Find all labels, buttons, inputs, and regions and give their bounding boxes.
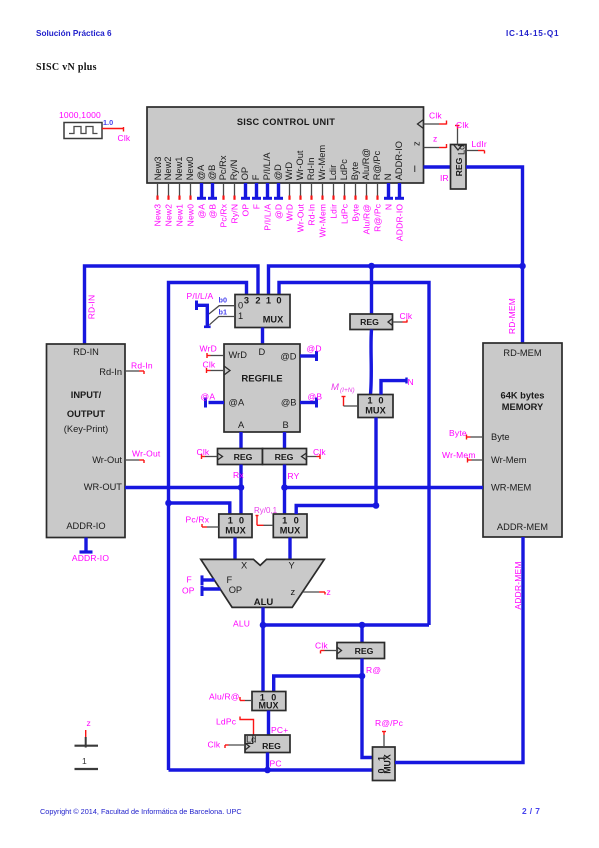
svg-text:WR-MEM: WR-MEM: [491, 483, 531, 493]
svg-text:WrD: WrD: [284, 162, 294, 181]
CU pin @B: [207, 165, 217, 219]
node Clk: [118, 133, 131, 143]
CU pin LdPc: [339, 159, 349, 224]
svg-text:1: 1: [266, 296, 271, 306]
CU pin @A: [196, 164, 206, 219]
svg-text:64K bytes: 64K bytes: [501, 391, 545, 401]
register R@ REG: [337, 643, 385, 659]
svg-text:F: F: [251, 174, 261, 180]
svg-text:Rx: Rx: [233, 470, 244, 480]
junction Ry / WR-MEM: [281, 484, 288, 491]
svg-text:ADDR-IO: ADDR-IO: [66, 521, 105, 531]
wire MUX1 output to REGFILE D: [261, 328, 264, 345]
svg-text:Clk: Clk: [400, 311, 413, 321]
svg-text:Pc/Rx: Pc/Rx: [218, 155, 228, 180]
svg-text:RD-MEM: RD-MEM: [503, 348, 541, 358]
svg-text:REGFILE: REGFILE: [241, 374, 282, 385]
svg-text:LdPc: LdPc: [339, 203, 349, 224]
control unit I input pin label: [414, 164, 417, 174]
svg-text:R@/Pc: R@/Pc: [372, 203, 382, 232]
mux M(I+N): [358, 395, 393, 418]
memory Byte input stub: [449, 428, 483, 440]
svg-text:PC: PC: [270, 759, 282, 769]
svg-text:Y: Y: [289, 561, 295, 571]
clock generator box: [64, 123, 102, 139]
svg-text:Wr-Mem: Wr-Mem: [442, 450, 476, 460]
svg-text:RD-IN: RD-IN: [87, 295, 97, 320]
svg-text:F: F: [227, 575, 233, 585]
CU pin Ry/N: [229, 160, 239, 224]
svg-text:@D: @D: [273, 204, 283, 219]
svg-text:Byte: Byte: [350, 204, 360, 222]
wire ALU output down: [261, 607, 264, 692]
register IR: [451, 145, 467, 190]
svg-text:New0: New0: [185, 157, 195, 181]
node ALU label: [233, 619, 250, 629]
header title left: [36, 29, 112, 38]
node PC+ label: [271, 725, 288, 735]
svg-text:B: B: [283, 420, 289, 430]
svg-text:Clk: Clk: [203, 360, 216, 370]
svg-text:@A: @A: [229, 398, 245, 408]
CU pin R@/Pc: [372, 150, 382, 231]
svg-text:MUX: MUX: [225, 526, 246, 536]
wire Clk from clock generator: [102, 127, 124, 132]
CU pin WrD: [284, 162, 294, 222]
svg-text:New2: New2: [163, 204, 173, 227]
wire MUX ADDR output to ADDR-MEM: [395, 537, 523, 763]
svg-text:Wr-Mem: Wr-Mem: [317, 204, 327, 238]
svg-text:Clk: Clk: [118, 133, 131, 143]
footer copyright: [40, 807, 242, 816]
svg-text:z: z: [412, 141, 422, 146]
svg-text:z: z: [433, 134, 437, 144]
CU pin New2: [163, 157, 173, 227]
control unit z input: [412, 141, 447, 148]
wire MUX Y output to ALU Y: [288, 538, 291, 561]
svg-text:MEMORY: MEMORY: [502, 402, 544, 412]
svg-text:@D: @D: [307, 344, 322, 354]
svg-text:P/I/L/A: P/I/L/A: [262, 152, 272, 181]
wire PC tap to MUX X pin1: [169, 503, 230, 515]
wire WR-MEM bus (Ry to memory): [285, 486, 484, 489]
svg-text:New2: New2: [163, 157, 173, 181]
io Wr-Out input stub: [125, 449, 161, 464]
label b1: [219, 308, 228, 317]
svg-text:@B: @B: [207, 204, 217, 219]
svg-text:(Key-Print): (Key-Print): [64, 424, 108, 434]
svg-text:0: 0: [294, 515, 299, 525]
CU pin ADDR-IO: [394, 141, 404, 241]
control unit U1 box: [147, 107, 424, 183]
node Rx label: [233, 470, 244, 480]
wire RD-MEM net (memory column to MUX pin1 and MDR reg): [269, 266, 523, 314]
ALU z output: [303, 587, 331, 597]
wire I bus control unit to IR: [424, 165, 451, 168]
svg-text:N: N: [408, 377, 414, 387]
svg-text:New0: New0: [185, 204, 195, 227]
P/I/L/A bus split annotation: [197, 301, 211, 327]
wire ALU output bus right: [263, 623, 429, 626]
svg-text:Solución Práctica 6: Solución Práctica 6: [36, 29, 112, 38]
svg-text:0: 0: [238, 300, 243, 310]
wire MDR REG output to MUX M: [371, 330, 372, 395]
register MDR REG (memory data): [350, 314, 393, 330]
junction RD-MEM at memory column: [519, 263, 526, 270]
MUX Y select input Ry/0,1: [254, 506, 278, 525]
svg-text:@B: @B: [308, 392, 323, 402]
MUX1 select stub b0: [209, 306, 235, 314]
svg-text:R@/Pc: R@/Pc: [375, 718, 404, 728]
svg-text:Wr-Out: Wr-Out: [295, 150, 305, 180]
svg-text:WR-OUT: WR-OUT: [84, 482, 123, 492]
svg-text:REG: REG: [275, 452, 294, 462]
svg-text:@A: @A: [201, 392, 216, 402]
svg-text:Ldir: Ldir: [328, 165, 338, 181]
svg-text:PC+: PC+: [271, 725, 288, 735]
register Ry REG: [263, 449, 307, 465]
wire REGFILE A to REG Rx: [239, 432, 242, 449]
junction ALU output: [260, 622, 267, 629]
svg-text:@A: @A: [196, 164, 206, 180]
wire I bus IR to RD-MEM column: [466, 167, 523, 343]
svg-text:WrD: WrD: [229, 350, 248, 360]
svg-text:@A: @A: [196, 204, 206, 219]
svg-text:Wr-Mem: Wr-Mem: [317, 145, 327, 181]
alu ALU trapezoid: [201, 559, 324, 608]
svg-text:A: A: [238, 420, 245, 430]
svg-text:ALU: ALU: [233, 619, 250, 629]
node ADDR-MEM vertical label: [513, 561, 523, 609]
wire R@ to MUX PC pin0: [274, 676, 362, 692]
svg-text:MUX: MUX: [263, 315, 284, 325]
svg-text:1: 1: [238, 311, 243, 321]
svg-text:I: I: [414, 164, 417, 174]
svg-text:1: 1: [282, 515, 287, 525]
svg-text:Rd-In: Rd-In: [306, 204, 316, 226]
CU pin Byte: [350, 162, 360, 222]
wire Ry output: [283, 465, 286, 515]
annotation z tied to 1: [75, 718, 99, 769]
CU pin New1: [174, 157, 184, 227]
svg-text:Rd-In: Rd-In: [131, 361, 153, 371]
svg-text:ADDR-MEM: ADDR-MEM: [513, 561, 523, 609]
control unit Clk input chevron: [418, 120, 447, 129]
wire MUX PC output to PC REG: [267, 711, 270, 736]
svg-text:1.0: 1.0: [103, 118, 113, 127]
svg-text:LdIr: LdIr: [472, 139, 487, 149]
svg-text:IR: IR: [440, 173, 449, 183]
svg-text:Clk: Clk: [429, 111, 442, 121]
svg-text:Clk: Clk: [456, 120, 469, 130]
PC REG Clk input: [208, 740, 246, 750]
svg-text:OP: OP: [240, 204, 250, 217]
svg-text:Pc/Rx: Pc/Rx: [218, 203, 228, 227]
CU pin Rd-In: [306, 158, 316, 226]
node Clk at control unit: [429, 111, 442, 121]
svg-text:OUTPUT: OUTPUT: [67, 409, 106, 419]
svg-text:Clk: Clk: [208, 740, 221, 750]
wire WR-OUT bus (Rx to IO): [125, 486, 241, 489]
MDR REG Clk input: [393, 311, 413, 323]
svg-text:0: 0: [239, 515, 244, 525]
mux MUX1 (P/I/L/A source select): [235, 295, 290, 328]
svg-text:SISC vN plus: SISC vN plus: [36, 62, 97, 73]
node PC label: [270, 759, 282, 769]
svg-text:1000,1000: 1000,1000: [59, 110, 101, 120]
svg-text:WrD: WrD: [200, 344, 217, 354]
CU pin Wr-Out: [295, 150, 305, 232]
svg-text:REG: REG: [234, 452, 253, 462]
svg-text:ADDR-IO: ADDR-IO: [72, 553, 109, 563]
svg-text:z: z: [327, 587, 331, 597]
wire RD-IN net (IO box to MUX pin2): [85, 266, 259, 344]
REGFILE WrD input: [200, 344, 225, 359]
wire PC net top segment (left loop to MUX pin3): [169, 283, 247, 771]
svg-text:Wr-Out: Wr-Out: [92, 455, 122, 465]
ALU F input stub: [187, 575, 215, 586]
wire R@ down to MUX ADDR pin1: [362, 676, 373, 758]
svg-text:RD-IN: RD-IN: [73, 347, 99, 357]
mux X (Pc/Rx): [219, 514, 252, 538]
REGFILE Clk input: [203, 360, 231, 376]
wire REGFILE B to REG Ry: [283, 432, 286, 449]
svg-text:OP: OP: [229, 585, 242, 595]
svg-text:ADDR-IO: ADDR-IO: [394, 204, 404, 241]
svg-text:R@: R@: [366, 665, 381, 675]
svg-text:@B: @B: [207, 165, 217, 181]
svg-text:Clk: Clk: [197, 447, 210, 457]
svg-text:REG: REG: [262, 741, 281, 751]
svg-text:LdPc: LdPc: [339, 159, 349, 181]
node P/I/L/A label: [187, 291, 214, 301]
svg-text:P/I/L/A: P/I/L/A: [262, 204, 272, 231]
mux PC source (Alu/R@): [252, 692, 286, 711]
junction PC: [264, 767, 271, 774]
CU pin @D: [273, 164, 283, 219]
PC REG LdPc input: [216, 717, 254, 735]
clock generator output label 1.0: [103, 118, 113, 127]
svg-text:Byte: Byte: [449, 428, 467, 438]
wire Rx output: [239, 465, 242, 515]
svg-text:Alu/R@: Alu/R@: [361, 148, 371, 180]
svg-text:MUX: MUX: [365, 406, 386, 416]
CU pin Alu/R@: [361, 148, 371, 234]
CU pin New0: [185, 157, 195, 227]
svg-text:ADDR-IO: ADDR-IO: [394, 141, 404, 180]
svg-text:b1: b1: [219, 308, 228, 317]
CU pin Wr-Mem: [317, 145, 327, 238]
svg-text:z: z: [291, 587, 296, 597]
svg-text:2: 2: [255, 296, 260, 306]
svg-text:N: N: [383, 204, 393, 210]
svg-text:M: M: [331, 382, 339, 393]
svg-text:Ld: Ld: [457, 145, 467, 155]
svg-text:Alu/R@: Alu/R@: [209, 692, 240, 702]
CU pin F: [251, 174, 261, 209]
svg-text:OP: OP: [182, 586, 195, 596]
svg-text:Ld: Ld: [246, 735, 256, 745]
svg-text:RD-MEM: RD-MEM: [507, 298, 517, 334]
CU pin P/I/L/A: [262, 152, 272, 231]
junction R@: [359, 673, 366, 680]
wire MUX M feed into MUX Y pin0: [296, 506, 376, 515]
svg-text:REG: REG: [360, 317, 379, 327]
svg-text:F: F: [187, 575, 192, 585]
svg-text:@B: @B: [281, 398, 297, 408]
wire MUX X output to ALU X: [233, 538, 236, 561]
Rx REG Clk input: [197, 447, 218, 459]
svg-text:D: D: [259, 347, 266, 357]
node ADDR-IO label: [72, 553, 109, 563]
REGFILE @A port stub: [201, 392, 225, 408]
node RY label: [288, 471, 300, 481]
svg-text:LdPc: LdPc: [216, 717, 237, 727]
R@ REG Clk input: [315, 641, 337, 654]
svg-text:IC-14-15-Q1: IC-14-15-Q1: [506, 29, 559, 38]
svg-text:New3: New3: [153, 157, 163, 181]
svg-text:OP: OP: [240, 167, 250, 180]
IR label: [440, 173, 449, 183]
svg-text:Ry/0,1: Ry/0,1: [254, 506, 278, 515]
svg-text:2 / 7: 2 / 7: [522, 806, 540, 816]
CU pin OP: [240, 167, 250, 217]
node z: [433, 134, 437, 144]
label b0: [219, 296, 228, 305]
wire PC bottom bus: [169, 768, 373, 771]
node RD-IN label: [87, 295, 97, 320]
svg-text:MUX: MUX: [280, 526, 301, 536]
svg-text:MUX: MUX: [259, 701, 279, 711]
junction PC tap: [165, 500, 172, 507]
CU pin Pc/Rx: [218, 155, 228, 227]
io box INPUT/OUTPUT: [47, 344, 126, 538]
register Rx REG: [218, 449, 263, 465]
io ADDR-IO terminator: [80, 538, 93, 553]
CU pin New3: [152, 157, 163, 227]
svg-text:Byte: Byte: [491, 432, 510, 442]
svg-text:Copyright © 2014, Facultad de: Copyright © 2014, Facultad de Informátic…: [40, 807, 242, 816]
svg-text:INPUT/: INPUT/: [71, 390, 102, 400]
REGFILE @D port stub: [300, 344, 322, 362]
svg-text:Ry/N: Ry/N: [229, 204, 239, 224]
junction MUX M output / Y-mux feed: [373, 502, 380, 509]
junction Rx / WR-OUT: [238, 484, 245, 491]
wire R@ output: [360, 659, 363, 677]
wire PC REG output: [266, 753, 269, 771]
wire MUX M output down to Y-mux feed: [374, 418, 377, 506]
MUX X select input Pc/Rx: [186, 515, 219, 528]
svg-text:Wr-Out: Wr-Out: [295, 203, 305, 232]
svg-text:Wr-Out: Wr-Out: [132, 449, 161, 459]
svg-text:Clk: Clk: [313, 447, 326, 457]
io Rd-In input stub: [125, 361, 153, 375]
junction ALU bus / R@ reg input: [359, 622, 366, 629]
CU pin N: [383, 174, 393, 211]
svg-text:Pc/Rx: Pc/Rx: [186, 515, 210, 525]
svg-text:0: 0: [378, 396, 383, 406]
svg-text:Byte: Byte: [350, 162, 360, 181]
svg-text:WrD: WrD: [284, 204, 294, 221]
CU pin Ldir: [328, 165, 338, 219]
svg-text:@D: @D: [280, 352, 296, 362]
register PC REG: [245, 735, 290, 753]
svg-text:Clk: Clk: [315, 641, 328, 651]
svg-text:z: z: [87, 718, 91, 728]
memory Wr-Mem input stub: [442, 450, 483, 463]
svg-text:N: N: [383, 174, 393, 181]
junction RD-MEM at MDR tap: [368, 263, 375, 270]
svg-text:ADDR-MEM: ADDR-MEM: [497, 522, 548, 532]
svg-text:REG: REG: [355, 646, 374, 656]
svg-text:F: F: [251, 204, 261, 209]
Ry REG Clk input: [307, 447, 327, 459]
svg-text:MUX: MUX: [383, 754, 393, 774]
MUX PC select input Alu/R@: [209, 692, 252, 702]
svg-text:3: 3: [244, 296, 249, 306]
mux Y (Ry/0,1): [273, 514, 307, 538]
regfile U2 box: [224, 344, 300, 432]
svg-text:Wr-Mem: Wr-Mem: [491, 455, 527, 465]
MUX1 select stub b1: [209, 317, 235, 325]
node RD-MEM vertical label: [507, 298, 517, 334]
ALU OP input stub: [182, 586, 220, 597]
svg-text:(I+N): (I+N): [340, 387, 355, 394]
svg-text:X: X: [241, 561, 247, 571]
clock generator label 1000,1000: [59, 110, 101, 120]
svg-text:R@/Pc: R@/Pc: [372, 150, 382, 180]
svg-text:P/I/L/A: P/I/L/A: [187, 291, 214, 301]
svg-text:1: 1: [228, 515, 233, 525]
svg-text:Ry/N: Ry/N: [229, 160, 239, 181]
mux ADDR (R@/Pc) vertical: [373, 747, 396, 781]
svg-text:Rd-In: Rd-In: [306, 158, 316, 181]
MUX M select input: [342, 397, 359, 407]
IR LdIr input: [466, 139, 487, 154]
node R@ label: [366, 665, 381, 675]
svg-text:New1: New1: [174, 157, 184, 181]
svg-text:1: 1: [367, 396, 372, 406]
svg-text:SISC CONTROL UNIT: SISC CONTROL UNIT: [237, 117, 335, 127]
svg-text:ALU: ALU: [254, 597, 274, 608]
svg-text:1: 1: [82, 756, 87, 766]
header code right: [506, 29, 559, 38]
MUX ADDR select input R@/Pc: [375, 718, 404, 747]
memory box 64K bytes MEMORY: [483, 343, 562, 537]
svg-text:b0: b0: [219, 296, 228, 305]
wire ALU feedback net (MUX pin0 riser): [279, 283, 429, 626]
svg-text:Rd-In: Rd-In: [99, 367, 122, 377]
footer page number: [522, 806, 540, 816]
svg-text:REG: REG: [454, 157, 464, 176]
node M(I+N) handwritten label: [331, 382, 355, 394]
wire R@ reg input: [360, 625, 363, 643]
node N label: [408, 377, 414, 387]
svg-text:Alu/R@: Alu/R@: [361, 204, 371, 235]
IR Clk input: [455, 120, 469, 145]
REGFILE @B port stub: [300, 392, 322, 408]
svg-text:Ldir: Ldir: [328, 204, 338, 219]
document subtitle: [36, 62, 97, 73]
wire N into MUX M pin0: [381, 378, 407, 395]
svg-text:New3: New3: [152, 204, 162, 227]
svg-text:@D: @D: [273, 164, 283, 180]
svg-text:RY: RY: [288, 471, 300, 481]
svg-text:0: 0: [276, 296, 281, 306]
svg-text:New1: New1: [174, 204, 184, 227]
